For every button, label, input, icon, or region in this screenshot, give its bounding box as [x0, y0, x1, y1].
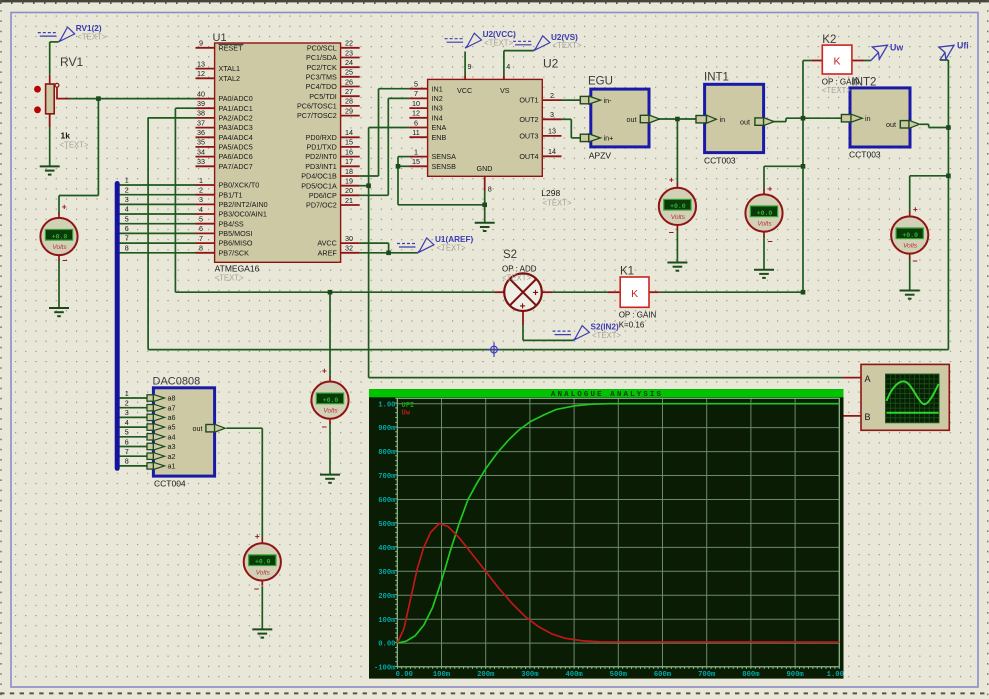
svg-text:4: 4 [506, 62, 510, 71]
svg-text:PB5/MOSI: PB5/MOSI [219, 229, 253, 238]
svg-text:500m: 500m [610, 671, 628, 679]
block INT2 CCT003 [850, 88, 910, 147]
svg-text:out: out [740, 117, 750, 126]
svg-text:30: 30 [345, 234, 353, 243]
terminal RV1(2) [38, 32, 57, 34]
pin 27 PC5/TDI [341, 95, 360, 97]
svg-text:100m: 100m [378, 617, 396, 625]
svg-text:<TEXT>: <TEXT> [822, 86, 851, 95]
pin 26 PC4/TDO [341, 86, 360, 88]
svg-text:ENA: ENA [432, 123, 447, 132]
svg-text:K2: K2 [822, 34, 836, 46]
pin 13 XTAL1 [196, 68, 215, 70]
svg-text:600m: 600m [378, 497, 396, 505]
svg-text:<TEXT>: <TEXT> [60, 141, 89, 150]
svg-text:U2: U2 [543, 57, 559, 71]
graph curve Uw red [397, 523, 839, 643]
svg-text:ATMEGA16: ATMEGA16 [215, 264, 260, 274]
svg-text:OP : GAIN: OP : GAIN [822, 78, 860, 87]
svg-text:0.00: 0.00 [396, 671, 413, 679]
svg-text:PB4/SS: PB4/SS [219, 219, 244, 228]
svg-text:300m: 300m [378, 569, 396, 577]
svg-text:PD5/OC1A: PD5/OC1A [301, 181, 337, 190]
junction AVCC-AREF [386, 251, 391, 256]
svg-text:32: 32 [345, 244, 353, 253]
RESET overline [219, 43, 244, 45]
svg-text:Volts: Volts [757, 221, 772, 228]
svg-text:PC0/SCL: PC0/SCL [307, 43, 337, 52]
svg-text:PC4/TDO: PC4/TDO [306, 82, 338, 91]
pin 7 PB6/MISO [196, 242, 215, 244]
wire node to voltmeter V1 [97, 99, 99, 196]
wire K1 out [659, 291, 803, 293]
DAC input a8 [147, 395, 153, 401]
wire SENSA SENSB to GND net [398, 156, 409, 158]
pin 7 IN2 [409, 97, 427, 99]
pin 14 PD0/RXD [341, 136, 360, 138]
EGU in- marker [580, 96, 589, 103]
svg-text:PD2/INT0: PD2/INT0 [305, 152, 337, 161]
svg-text:<TEXT>: <TEXT> [502, 274, 531, 283]
svg-text:29: 29 [345, 106, 353, 115]
svg-text:700m: 700m [378, 473, 396, 481]
wire junction down to voltmeter V5 [329, 292, 331, 376]
svg-text:+0.0: +0.0 [902, 232, 918, 239]
svg-text:CCT003: CCT003 [704, 156, 736, 166]
svg-text:PD6/ICP: PD6/ICP [309, 191, 337, 200]
pin 1 SENSA [409, 156, 427, 158]
svg-text:3: 3 [125, 195, 129, 204]
svg-text:PB2/INT2/AIN0: PB2/INT2/AIN0 [219, 200, 268, 209]
analogue analysis graph panel [369, 389, 844, 678]
pin 23 PC1/SDA [341, 57, 360, 59]
svg-text:a7: a7 [168, 403, 176, 412]
wire PA1 to S2 and K1 net [175, 107, 195, 109]
svg-text:21: 21 [345, 196, 353, 205]
svg-text:5: 5 [414, 80, 418, 89]
svg-text:+0.0: +0.0 [52, 233, 68, 240]
svg-text:1: 1 [199, 176, 203, 185]
svg-text:1: 1 [414, 147, 418, 156]
svg-text:PB7/SCK: PB7/SCK [219, 248, 250, 257]
wire OUT2 to EGU in+ [562, 118, 572, 120]
svg-text:700m: 700m [698, 671, 716, 679]
svg-text:PA1/ADC1: PA1/ADC1 [219, 104, 253, 113]
pin 2 OUT1 [542, 99, 561, 101]
pin 28 PC6/TOSC1 [341, 105, 360, 107]
wire K1 out up to K2 in net [802, 61, 804, 293]
svg-text:in: in [865, 114, 871, 123]
svg-text:IN1: IN1 [432, 84, 443, 93]
svg-text:a2: a2 [168, 452, 176, 461]
svg-text:13: 13 [197, 59, 205, 68]
svg-text:Uw: Uw [402, 410, 411, 418]
svg-text:+0.0: +0.0 [670, 203, 686, 210]
block EGU APZV [591, 89, 649, 147]
svg-text:PA4/ADC4: PA4/ADC4 [219, 133, 253, 142]
svg-text:23: 23 [345, 48, 353, 57]
svg-text:6: 6 [125, 224, 129, 233]
svg-text:IN4: IN4 [432, 113, 443, 122]
svg-text:a8: a8 [168, 394, 176, 403]
svg-text:-100m: -100m [374, 664, 396, 672]
INT1 in marker [696, 116, 707, 123]
wire V5 to ground [329, 423, 331, 474]
wire OUT1 to EGU in- [562, 99, 581, 101]
svg-text:PA5/ADC5: PA5/ADC5 [219, 143, 253, 152]
pin 1 PB0/XCK/T0 [196, 184, 215, 186]
svg-text:PC3/TMS: PC3/TMS [306, 72, 337, 81]
svg-text:1.00: 1.00 [378, 401, 395, 409]
svg-text:24: 24 [345, 58, 353, 67]
svg-text:5: 5 [199, 215, 203, 224]
bottom ruler strip [0, 692, 989, 694]
svg-text:33: 33 [197, 157, 205, 166]
bus DAC data [115, 184, 120, 469]
svg-text:+: + [62, 202, 67, 212]
junction K1 out corner [801, 290, 806, 295]
svg-text:in+: in+ [604, 134, 614, 143]
ground below U2 [475, 223, 495, 231]
left ruler ticks [0, 0, 2, 699]
svg-text:EGU: EGU [588, 76, 613, 88]
INT2 in marker [841, 115, 851, 122]
DAC input a5 [147, 424, 153, 430]
svg-text:out: out [886, 120, 896, 129]
svg-text:7: 7 [414, 89, 418, 98]
svg-text:4: 4 [125, 205, 129, 214]
svg-text:6: 6 [414, 118, 418, 127]
svg-text:38: 38 [197, 109, 205, 118]
svg-text:7: 7 [125, 447, 129, 456]
gain block K2 [811, 60, 822, 62]
DAC input a1 [147, 463, 153, 469]
junction INT2 out / Ufi net [946, 125, 951, 130]
pin 9 RESET [196, 47, 215, 49]
pin 3 PB2/INT2/AIN0 [196, 203, 215, 205]
svg-text:2: 2 [199, 186, 203, 195]
junction K2 net / INT2 in [801, 116, 806, 121]
voltmeter V3 [745, 194, 782, 231]
svg-text:a4: a4 [168, 432, 176, 441]
pin 18 PD4/OC1B [341, 175, 360, 177]
pin 5 PB4/SS [196, 223, 215, 225]
svg-text:Volts: Volts [256, 569, 271, 576]
svg-text:CCT003: CCT003 [849, 150, 881, 160]
svg-text:−: − [669, 228, 674, 238]
svg-text:18: 18 [345, 167, 353, 176]
svg-text:Volts: Volts [671, 214, 686, 221]
svg-text:OUT2: OUT2 [519, 115, 538, 124]
pin 29 PC7/TOSC2 [341, 115, 360, 117]
DAC input a7 [147, 405, 153, 411]
wire S2 bottom to terminal S2(IN2) [522, 324, 524, 340]
INT2 out marker [900, 121, 909, 128]
block INT1 CCT003 [705, 84, 764, 152]
junction Ufi net / V4 [946, 174, 951, 179]
pin 8 GND [484, 176, 486, 190]
wire S2 out to K1 in [552, 291, 609, 293]
svg-text:6: 6 [199, 224, 203, 233]
pin 15 PD1/TXD [341, 146, 360, 148]
terminal U2(VCC) [445, 38, 464, 40]
wire pot wiper to PA0 [69, 98, 196, 100]
svg-text:PC6/TOSC1: PC6/TOSC1 [297, 102, 337, 111]
wire PD4/OC1B to IN1 [360, 175, 379, 177]
pin 5 IN1 [409, 88, 427, 90]
pin 14 OUT4 [542, 155, 561, 157]
svg-text:PA2/ADC2: PA2/ADC2 [219, 114, 253, 123]
pin 4 VS [503, 75, 505, 79]
wire DAC out to voltmeter V6 [226, 427, 262, 429]
svg-text:15: 15 [412, 157, 420, 166]
scope sine trace [887, 381, 939, 404]
svg-text:<TEXT>: <TEXT> [437, 243, 466, 252]
svg-text:8: 8 [125, 457, 129, 466]
svg-text:K=0.16: K=0.16 [619, 321, 645, 330]
svg-text:25: 25 [345, 68, 353, 77]
wire V6 to ground [261, 586, 263, 629]
pin 13 OUT3 [542, 135, 561, 137]
svg-text:5: 5 [125, 428, 129, 437]
svg-text:12: 12 [197, 69, 205, 78]
svg-text:PD0/RXD: PD0/RXD [306, 133, 337, 142]
svg-text:<TEXT>: <TEXT> [77, 33, 106, 42]
wire EGU out to INT1 in [659, 118, 696, 120]
svg-text:27: 27 [345, 87, 353, 96]
svg-text:300m: 300m [521, 671, 539, 679]
svg-text:+0.0: +0.0 [757, 210, 773, 217]
svg-text:AVCC: AVCC [317, 239, 336, 248]
wire V4 to ground [909, 258, 911, 290]
voltmeter V6 [244, 543, 281, 580]
svg-text:26: 26 [345, 77, 353, 86]
wire branch to voltmeter V3 [764, 165, 803, 167]
pin 24 PC2/TCK [341, 66, 360, 68]
pin 37 PA3/ADC3 [196, 127, 215, 129]
bus entry wires PB0-PB7 [119, 184, 196, 186]
svg-text:U1: U1 [213, 32, 227, 44]
svg-text:PA6/ADC6: PA6/ADC6 [219, 152, 253, 161]
svg-text:12: 12 [412, 109, 420, 118]
svg-text:DAC0808: DAC0808 [153, 376, 201, 388]
pin 32 AREF [341, 252, 360, 254]
svg-text:9: 9 [468, 62, 472, 71]
svg-text:4: 4 [125, 418, 129, 427]
svg-text:9: 9 [199, 39, 203, 48]
svg-text:4: 4 [199, 205, 203, 214]
wire junction to voltmeter V2 [676, 119, 678, 183]
svg-text:−: − [322, 422, 327, 432]
svg-text:PB6/MISO: PB6/MISO [219, 239, 253, 248]
svg-text:2: 2 [125, 185, 129, 194]
svg-text:−: − [254, 584, 259, 594]
svg-text:14: 14 [345, 128, 353, 137]
svg-text:PD1/TXD: PD1/TXD [306, 143, 336, 152]
top ruler strip [0, 0, 989, 2]
svg-text:16: 16 [345, 147, 353, 156]
ground below V5 [320, 475, 340, 483]
svg-text:8: 8 [199, 244, 203, 253]
pin 12 IN4 [409, 117, 427, 119]
pin 21 PD7/OC2 [341, 204, 360, 206]
svg-text:PC2/TCK: PC2/TCK [306, 63, 337, 72]
svg-text:28: 28 [345, 97, 353, 106]
DAC input a6 [147, 414, 153, 420]
svg-text:PB3/OC0/AIN1: PB3/OC0/AIN1 [219, 210, 267, 219]
svg-text:IN2: IN2 [432, 94, 443, 103]
DAC U3 DAC0808 CCT004 [153, 388, 214, 476]
svg-text:<TEXT>: <TEXT> [543, 199, 572, 208]
svg-text:400m: 400m [378, 545, 396, 553]
svg-text:11: 11 [412, 128, 419, 137]
svg-text:7: 7 [125, 234, 129, 243]
svg-text:200m: 200m [477, 671, 495, 679]
DAC out marker [206, 425, 215, 432]
junction pot/PA0/V1 node [96, 96, 101, 101]
svg-text:Ufi: Ufi [957, 41, 969, 51]
svg-text:<TEXT>: <TEXT> [553, 41, 582, 50]
svg-text:Volts: Volts [903, 243, 918, 250]
svg-text:36: 36 [197, 128, 205, 137]
svg-text:1: 1 [125, 389, 129, 398]
svg-text:AREF: AREF [318, 248, 338, 257]
svg-text:out: out [627, 115, 637, 124]
ground below V2 [667, 263, 687, 271]
svg-text:VS: VS [500, 86, 510, 95]
svg-text:XTAL2: XTAL2 [219, 74, 240, 83]
svg-text:+0.0: +0.0 [323, 397, 339, 404]
wire V2 to ground [676, 230, 678, 262]
pin 36 PA4/ADC4 [196, 136, 215, 138]
svg-text:out: out [193, 424, 203, 433]
pin 16 PD2/INT0 [341, 156, 360, 158]
svg-text:5: 5 [125, 214, 129, 223]
svg-text:PD7/OC2: PD7/OC2 [306, 201, 337, 210]
pin 15 SENSB [409, 165, 427, 167]
svg-text:SENSA: SENSA [432, 152, 457, 161]
svg-text:VCC: VCC [457, 86, 472, 95]
pin 33 PA7/ADC7 [196, 165, 215, 167]
adder S2 [495, 291, 505, 293]
potentiometer RV1 [49, 75, 51, 84]
svg-text:A: A [865, 374, 871, 384]
wire AVCC to AREF [360, 242, 389, 244]
wire PA2 feedback from Ufi [148, 117, 195, 119]
pin 38 PA2/ADC2 [196, 117, 215, 119]
wire branch to voltmeter V4 [910, 175, 949, 177]
svg-text:Uw: Uw [890, 43, 903, 53]
INT1 out marker [755, 118, 764, 125]
svg-text:1.00: 1.00 [827, 671, 844, 679]
voltmeter V4 [891, 216, 928, 253]
svg-text:OUT4: OUT4 [519, 152, 538, 161]
svg-text:Volts: Volts [52, 244, 67, 251]
svg-text:−: − [62, 256, 67, 266]
svg-text:K: K [631, 288, 638, 300]
ground below V1 [49, 308, 69, 316]
pin 11 ENB [409, 136, 427, 138]
svg-text:PC5/TDI: PC5/TDI [309, 92, 337, 101]
svg-text:+0.0: +0.0 [255, 559, 271, 566]
bus entry wires DAC a8-a1 [119, 397, 147, 399]
svg-text:XTAL1: XTAL1 [219, 64, 240, 73]
pin 39 PA1/ADC1 [196, 107, 215, 109]
oscilloscope graph component [843, 377, 861, 379]
wire RV1 top to terminal RV1(2) [49, 42, 51, 75]
svg-text:800m: 800m [378, 449, 396, 457]
microcontroller U1 ATMEGA16 [215, 43, 341, 262]
svg-text:100m: 100m [433, 671, 451, 679]
junction EGU out / V2 [675, 117, 680, 122]
graph gridlines [397, 398, 839, 667]
svg-text:B: B [865, 412, 871, 422]
pin 30 AVCC [341, 242, 360, 244]
pin 6 PB5/MOSI [196, 232, 215, 234]
svg-text:<TEXT>: <TEXT> [484, 39, 513, 48]
svg-text:PB0/XCK/T0: PB0/XCK/T0 [219, 181, 260, 190]
svg-text:K: K [833, 56, 840, 68]
wire V1 to ground [58, 260, 60, 308]
pin 8 PB7/SCK [196, 252, 215, 254]
svg-text:500m: 500m [378, 521, 396, 529]
svg-text:1: 1 [125, 176, 129, 185]
wire U2 VS pin to terminal [503, 51, 505, 76]
svg-text:35: 35 [197, 138, 205, 147]
pin 4 PB3/OC0/AIN1 [196, 213, 215, 215]
voltmeter V2 [659, 188, 696, 225]
svg-text:OUT3: OUT3 [519, 132, 538, 141]
pin 17 PD3/INT1 [341, 165, 360, 167]
svg-text:PD4/OC1B: PD4/OC1B [301, 172, 337, 181]
wire U2 GND pin 8 to ground [484, 191, 486, 223]
svg-text:INT1: INT1 [704, 72, 729, 84]
svg-text:+: + [533, 288, 539, 299]
svg-text:400m: 400m [565, 671, 583, 679]
pin 20 PD6/ICP [341, 194, 360, 196]
DAC input a4 [147, 434, 153, 440]
svg-text:+: + [768, 184, 773, 194]
DAC input a3 [147, 443, 153, 449]
EGU in+ marker [580, 134, 589, 141]
right ruler ticks [987, 0, 989, 699]
origin marker [487, 342, 502, 357]
junction U2 GND [482, 203, 487, 208]
gain block K1 [608, 291, 620, 293]
graph axes [397, 398, 839, 667]
wire PD5/OC1A junction [360, 185, 369, 187]
svg-text:+: + [255, 531, 260, 541]
pointer Ufi [940, 53, 945, 61]
wire INT1 out to INT2 in [773, 121, 786, 123]
svg-text:2: 2 [125, 399, 129, 408]
pin 6 ENA [409, 127, 427, 129]
svg-text:13: 13 [548, 127, 556, 136]
svg-text:CCT004: CCT004 [154, 479, 186, 489]
ground below V4 [900, 291, 920, 299]
svg-text:+: + [520, 302, 526, 313]
svg-text:8: 8 [125, 243, 129, 252]
pin 3 OUT2 [542, 118, 561, 120]
terminal U1(AREF) [397, 243, 416, 245]
junction K2 net / V3 [801, 164, 806, 169]
svg-text:+: + [913, 204, 918, 214]
svg-text:1k: 1k [61, 131, 71, 141]
svg-text:19: 19 [345, 177, 353, 186]
svg-text:800m: 800m [742, 671, 760, 679]
svg-text:6: 6 [125, 437, 129, 446]
svg-text:−: − [767, 237, 772, 247]
